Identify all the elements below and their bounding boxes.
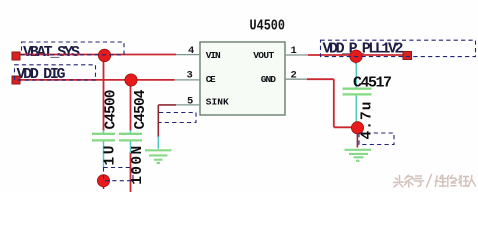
svg-text:C4504: C4504 — [133, 89, 149, 129]
svg-text:C4517: C4517 — [353, 75, 392, 92]
svg-text:3: 3 — [187, 70, 193, 82]
svg-text:CE: CE — [206, 74, 216, 85]
svg-text:VOUT: VOUT — [253, 50, 274, 61]
svg-text:U4500: U4500 — [250, 18, 286, 35]
svg-text:4.7u: 4.7u — [360, 102, 376, 140]
svg-text:C4500: C4500 — [104, 90, 120, 130]
svg-text:1: 1 — [291, 45, 297, 57]
svg-text:SINK: SINK — [206, 97, 229, 108]
svg-text:100N: 100N — [130, 146, 146, 185]
svg-text:VIN: VIN — [206, 50, 221, 61]
svg-text:GND: GND — [261, 74, 276, 85]
svg-text:4: 4 — [188, 45, 194, 57]
svg-text:VBAT_SYS: VBAT_SYS — [23, 44, 80, 61]
svg-text:5: 5 — [187, 96, 193, 108]
svg-text:2: 2 — [291, 70, 297, 82]
